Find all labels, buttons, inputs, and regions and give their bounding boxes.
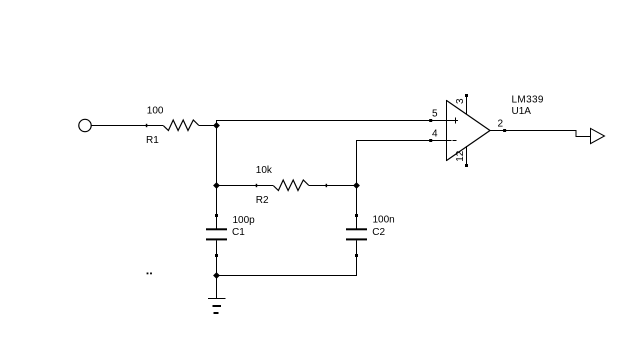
svg-text:100: 100 [147,105,164,116]
junction node D (ground node) [213,272,220,279]
svg-text:2: 2 [498,119,504,130]
output terminal [591,128,605,143]
wire node B down to C1 [216,186,218,230]
pin 4 square [429,139,432,142]
pin 5 square [429,119,432,122]
svg-text:R2: R2 [256,195,269,206]
pin 12 wire [466,146,468,165]
wire output [490,131,591,137]
wire node B to R2 [217,185,274,187]
capacitor C1 [206,214,227,257]
wire node C to pin 4 [357,141,452,186]
svg-text:C1: C1 [232,227,245,238]
junction node A [213,122,220,129]
ground [208,299,226,314]
svg-text:U1A: U1A [512,106,532,117]
wire node D to ground [216,276,218,299]
svg-text:R1: R1 [146,135,159,146]
wire input to R1 [92,125,164,127]
svg-text:12: 12 [455,150,466,162]
wire R2 to node C [309,185,357,187]
pin 3 wire [466,96,468,115]
wire R1 to node A [199,125,217,127]
stray dots [147,273,152,275]
junction node C [353,182,360,189]
input terminal [79,119,91,131]
junction node B [213,182,220,189]
svg-text:C2: C2 [372,227,385,238]
svg-text:100p: 100p [233,215,256,226]
resistor R1 [146,120,199,131]
op-amp U1A triangle [446,100,490,161]
svg-text:3: 3 [455,98,466,104]
wire node C down to C2 [356,186,358,230]
capacitor C2 [346,214,367,257]
op-amp minus input marker [453,140,457,142]
wire C2 down and left to ground node [217,240,357,275]
svg-text:4: 4 [432,128,438,139]
svg-text:10k: 10k [256,165,273,176]
pin 12 square [465,164,468,167]
wire C1 to ground node [216,240,218,275]
pin 3 square [465,94,468,97]
resistor R2 [256,180,327,191]
pin 2 square [503,129,506,132]
op-amp plus input marker [453,118,459,124]
svg-text:100n: 100n [373,215,395,226]
svg-text:5: 5 [432,109,438,120]
svg-text:LM339: LM339 [512,95,544,106]
wire node A down to node B [216,126,218,186]
wire node A to pin 5 [217,121,458,126]
